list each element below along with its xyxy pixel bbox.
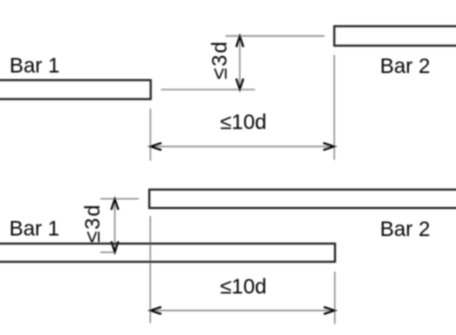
bar 1 (bottom diagram) rectangle xyxy=(0,244,335,262)
extension line below bar 1 right end (top diagram) xyxy=(149,109,151,161)
horizontal dimension line ≤10d (top diagram) xyxy=(150,146,334,148)
svg-text:≤10d: ≤10d xyxy=(220,276,267,299)
extension line from bar 1 centreline (top diagram) xyxy=(161,89,255,91)
arrowhead left (top ≤10d) xyxy=(151,143,162,150)
arrowhead right (bottom ≤10d) xyxy=(324,307,335,314)
bar 2 (top diagram) rectangle xyxy=(334,26,456,46)
horizontal dimension line ≤10d (bottom diagram) xyxy=(150,310,334,312)
extension tick at bar 1 centreline (bottom diagram) xyxy=(100,251,116,253)
extension line from bar 2 centreline (top diagram) xyxy=(226,35,325,37)
extension line below bar 2 left end (top diagram) xyxy=(333,55,335,160)
extension line from bar 2 centreline (bottom diagram) xyxy=(100,198,138,200)
svg-text:Bar 1: Bar 1 xyxy=(9,218,59,241)
svg-text:Bar 2: Bar 2 xyxy=(380,55,430,78)
arrowhead down (bottom ≤3d) xyxy=(111,241,118,252)
bar 2 (bottom diagram) rectangle xyxy=(149,190,456,208)
arrowhead up (top ≤3d) xyxy=(236,36,243,47)
svg-text:Bar 2: Bar 2 xyxy=(380,218,430,241)
arrowhead down (top ≤3d) xyxy=(236,79,243,90)
extension line below bar 2 left end (bottom diagram) xyxy=(149,216,151,323)
vertical dimension line ≤3d (bottom diagram) xyxy=(114,199,116,253)
svg-text:≤3d: ≤3d xyxy=(209,40,232,79)
arrowhead left (bottom ≤10d) xyxy=(151,307,162,314)
arrowhead up (bottom ≤3d) xyxy=(111,199,118,210)
vertical dimension line ≤3d (top diagram) xyxy=(239,36,241,90)
svg-text:≤3d: ≤3d xyxy=(81,203,104,242)
bar 1 (top diagram) rectangle xyxy=(0,80,151,99)
extension line below bar 1 right end (bottom diagram) xyxy=(334,272,336,324)
svg-text:≤10d: ≤10d xyxy=(220,111,267,134)
svg-text:Bar 1: Bar 1 xyxy=(10,55,60,78)
arrowhead right (top ≤10d) xyxy=(323,143,334,150)
